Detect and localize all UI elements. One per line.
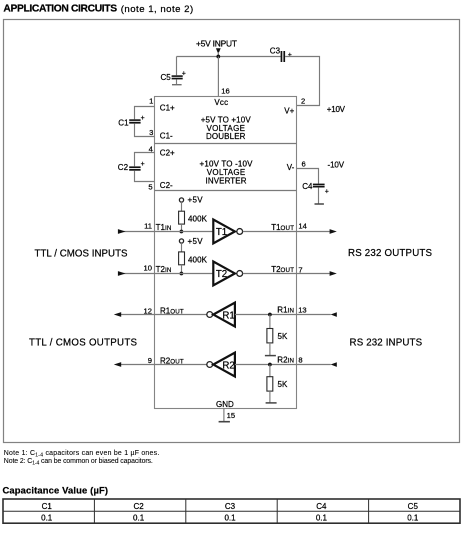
transistor driver T1 [213, 220, 242, 244]
capacitor C1 [118, 107, 154, 137]
node +5V INPUT [196, 38, 237, 56]
svg-text:1: 1 [149, 97, 153, 106]
svg-text:5K: 5K [278, 380, 288, 389]
voltage doubler text [201, 115, 252, 141]
svg-text:9: 9 [148, 356, 152, 365]
svg-text:C2-: C2- [160, 181, 173, 190]
ground bar (R1 5K) [265, 355, 276, 357]
svg-text:400K: 400K [188, 255, 208, 264]
wire R1 input [235, 314, 331, 316]
svg-text:APPLICATION CIRCUITS: APPLICATION CIRCUITS [3, 4, 117, 15]
svg-text:+: + [325, 188, 329, 195]
svg-text:T1IN: T1IN [156, 223, 172, 232]
capacitor C3 [270, 47, 292, 62]
junction R2 input [268, 363, 272, 367]
svg-text:5K: 5K [278, 332, 288, 341]
wire R2 input [235, 364, 331, 366]
svg-text:T2OUT: T2OUT [271, 265, 294, 274]
svg-text:0.1: 0.1 [41, 514, 53, 523]
svg-text:C1: C1 [118, 118, 129, 127]
svg-text:Capacitance Value (µF): Capacitance Value (µF) [3, 484, 109, 495]
svg-text:11: 11 [144, 222, 152, 231]
wire T2 input [121, 273, 213, 275]
svg-text:+: + [141, 115, 145, 122]
voltage inverter text [200, 159, 254, 185]
wire T1 input [121, 231, 213, 233]
svg-text:+5V INPUT: +5V INPUT [196, 38, 237, 48]
resistor 400K (T1) [179, 202, 208, 231]
svg-text:5: 5 [148, 182, 152, 191]
wire V- pin 6 to C4 [297, 169, 319, 184]
wire T2 output [243, 273, 330, 275]
junction top rail [216, 55, 220, 59]
svg-text:C5: C5 [161, 73, 172, 82]
capacitor C5 [161, 57, 186, 85]
svg-text:RS 232 INPUTS: RS 232 INPUTS [350, 337, 423, 348]
svg-text:2: 2 [301, 96, 305, 105]
svg-text:C1: C1 [42, 502, 53, 511]
arrow T1OUT [330, 229, 337, 234]
svg-text:C2: C2 [118, 163, 129, 172]
svg-text:6: 6 [302, 159, 306, 168]
arrow R2OUT [114, 362, 121, 367]
svg-text:V-: V- [287, 163, 295, 172]
separator doubler [155, 143, 297, 145]
svg-text:C5: C5 [408, 502, 419, 511]
svg-text:C4: C4 [316, 502, 327, 511]
svg-text:8: 8 [298, 355, 302, 364]
svg-text:400K: 400K [188, 215, 208, 224]
svg-text:T1OUT: T1OUT [271, 223, 294, 232]
svg-text:+10V: +10V [327, 105, 346, 114]
svg-text:TTL / CMOS INPUTS: TTL / CMOS INPUTS [35, 249, 129, 260]
capacitor C4 [302, 182, 329, 204]
svg-text:R1IN: R1IN [277, 306, 294, 315]
transistor driver T2 [213, 262, 242, 286]
op-amp U1 IC box [155, 97, 297, 409]
svg-text:T2IN: T2IN [156, 265, 172, 274]
border frame [4, 20, 460, 443]
wire C3 to V+ pin 2 [285, 57, 319, 106]
ground [219, 409, 230, 422]
svg-text:0.1: 0.1 [316, 514, 328, 523]
svg-text:+: + [288, 52, 292, 59]
svg-text:3: 3 [149, 128, 153, 137]
junction T1 input [180, 230, 184, 234]
svg-text:GND: GND [216, 400, 234, 409]
arrow R1OUT [114, 312, 121, 317]
svg-text:10: 10 [144, 264, 152, 273]
svg-text:(note 1, note 2): (note 1, note 2) [121, 4, 194, 15]
node +5V (T2 pullup) [179, 237, 203, 246]
svg-text:+: + [182, 70, 186, 77]
svg-text:C2: C2 [133, 502, 144, 511]
svg-text:RS 232 OUTPUTS: RS 232 OUTPUTS [348, 248, 433, 259]
svg-text:15: 15 [227, 411, 235, 420]
arrow T2OUT [330, 271, 337, 276]
svg-text:-10V: -10V [328, 160, 345, 169]
svg-text:C2+: C2+ [160, 149, 175, 158]
svg-text:T1: T1 [216, 227, 227, 238]
svg-text:0.1: 0.1 [224, 514, 236, 523]
receiver R2 [207, 353, 235, 377]
resistor 400K (T2) [179, 243, 208, 273]
svg-text:C1+: C1+ [160, 104, 175, 113]
wire T1 output [243, 231, 330, 233]
svg-text:+: + [141, 161, 145, 168]
capacitor C2 [118, 153, 155, 182]
svg-text:V+: V+ [284, 107, 294, 116]
svg-text:R2: R2 [222, 361, 234, 372]
svg-text:C4: C4 [302, 182, 313, 191]
ground bar (R2 5K) [266, 402, 277, 404]
svg-text:C3: C3 [270, 47, 281, 56]
junction R1 input [268, 313, 272, 317]
separator inverter [155, 190, 297, 192]
svg-text:13: 13 [298, 305, 306, 314]
arrow into T2 [118, 271, 126, 276]
svg-text:14: 14 [298, 222, 306, 231]
capacitance table [3, 499, 460, 523]
svg-text:+5V: +5V [188, 195, 204, 204]
svg-text:INVERTER: INVERTER [206, 177, 247, 186]
svg-text:TTL / CMOS OUTPUTS: TTL / CMOS OUTPUTS [29, 337, 138, 348]
svg-text:R1: R1 [222, 311, 234, 322]
wire R2 output [121, 364, 207, 366]
wire R1 output [121, 314, 207, 316]
svg-text:16: 16 [221, 87, 229, 96]
svg-text:DOUBLER: DOUBLER [206, 132, 246, 141]
svg-text:+5V: +5V [188, 237, 204, 246]
svg-text:Vcc: Vcc [214, 98, 228, 107]
svg-text:C3: C3 [225, 502, 236, 511]
arrow into T1 [118, 229, 126, 234]
svg-text:7: 7 [298, 265, 302, 274]
svg-text:0.1: 0.1 [407, 514, 419, 523]
resistor 5K (R1) [267, 315, 288, 356]
svg-text:R2IN: R2IN [277, 355, 294, 364]
arrow into R1 [331, 312, 337, 317]
wire Vcc pin16 [217, 57, 219, 97]
svg-text:0.1: 0.1 [133, 514, 145, 523]
node +5V (T1 pullup) [179, 195, 203, 204]
junction T2 input [180, 272, 184, 276]
resistor 5K (R2) [267, 365, 288, 403]
arrow into R2 [331, 362, 337, 367]
receiver R1 [207, 303, 235, 327]
wire top rail [177, 56, 281, 58]
svg-text:C1-: C1- [160, 132, 173, 141]
svg-text:T2: T2 [216, 269, 227, 280]
